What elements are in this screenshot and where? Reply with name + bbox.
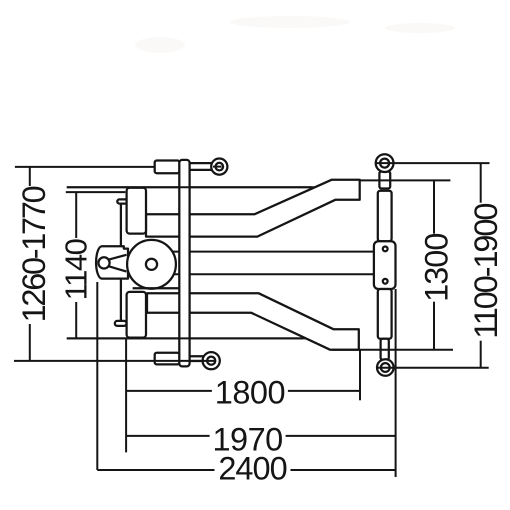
- link shank top: [379, 172, 390, 189]
- label 1800: [212, 375, 288, 411]
- pad upper-left: [127, 188, 146, 234]
- extension line 1300 bottom: [332, 349, 453, 351]
- link middle plate: [374, 241, 396, 289]
- top arm rod: [188, 163, 215, 170]
- central column: [179, 160, 189, 367]
- extension line right bottom through link eye: [377, 367, 488, 369]
- link top eye outer: [376, 154, 394, 172]
- extension line bottom-left vertical (cylinder to 2400): [96, 282, 98, 470]
- svg-text:1300: 1300: [419, 234, 455, 302]
- dimension line 1800 horizontal: [126, 390, 360, 392]
- line under pulley: [133, 287, 180, 289]
- cone line upper: [109, 255, 127, 260]
- beam top line: [67, 186, 340, 188]
- faint smudge artifacts top: [135, 16, 455, 53]
- plate bolt bottom: [383, 279, 388, 284]
- link upper bar: [378, 191, 392, 242]
- link lower shank: [381, 339, 389, 360]
- extension line 1300 top: [360, 179, 451, 181]
- link lower bar: [378, 289, 392, 339]
- bottom slide pad: [155, 353, 180, 365]
- top slide pad: [155, 161, 180, 174]
- extension line right top through link eye: [376, 162, 490, 164]
- beam middle channel lines: [150, 251, 374, 253]
- link bottom eye inner: [381, 363, 390, 372]
- label 1140: [58, 238, 93, 302]
- bracket stub bottom: [115, 321, 127, 326]
- cone line lower: [109, 266, 127, 271]
- pad lower-left: [127, 292, 146, 338]
- svg-text:1800: 1800: [215, 375, 285, 411]
- dimension line 1100-1900 vertical: [480, 163, 482, 368]
- bottom arm rod: [188, 356, 215, 361]
- top arm roller inner: [216, 163, 224, 171]
- upper telescopic arm: [146, 180, 360, 237]
- link bottom eye outer: [377, 359, 394, 376]
- beam top line over column: [67, 186, 312, 188]
- beam bottom line over column: [67, 337, 303, 339]
- lower telescopic arm: [147, 293, 359, 350]
- bracket stub top: [117, 199, 127, 203]
- pulley hub: [146, 259, 157, 270]
- pulley circle: [127, 240, 176, 289]
- label 1260-1770: [16, 186, 52, 324]
- label 1100-1900: [468, 203, 504, 341]
- extension line 1800 right vertical: [359, 350, 361, 401]
- svg-text:1100-1900: 1100-1900: [468, 204, 504, 339]
- link top eye inner: [380, 159, 389, 168]
- center dash top roller: [213, 166, 222, 168]
- label 2400: [215, 451, 291, 487]
- plate bolt top: [383, 247, 388, 252]
- beam bottom line / 1140 lower extension: [67, 337, 330, 339]
- bottom arm roller inner: [207, 357, 215, 365]
- extension line bottom-right vertical (plate to 2400): [395, 289, 397, 477]
- extension line top-left (upper ref of 1260-1770): [15, 166, 158, 168]
- extension line pad vertical (to 1970): [125, 338, 127, 453]
- label 1300: [419, 234, 455, 302]
- svg-text:1140: 1140: [58, 238, 93, 300]
- label 1970: [210, 421, 286, 457]
- extension line bottom-left (lower ref of 1260-1770): [14, 360, 215, 362]
- svg-text:2400: 2400: [218, 451, 286, 487]
- dimension line 1970 horizontal: [126, 435, 395, 437]
- motor cylinder body: [96, 246, 128, 278]
- cylinder shaft small circle: [98, 257, 109, 268]
- bracket vertical link: [120, 203, 122, 321]
- dimension line 1140 vertical: [75, 192, 77, 338]
- svg-text:1260-1770: 1260-1770: [16, 186, 52, 322]
- bottom arm roller outer: [203, 352, 220, 369]
- dimension line 2400 horizontal: [97, 469, 395, 471]
- top arm roller outer: [211, 159, 227, 175]
- dimension line 1260-1770 vertical: [29, 167, 31, 361]
- extension line 1140 top: [66, 191, 126, 193]
- dimension line 1300 vertical: [433, 180, 435, 349]
